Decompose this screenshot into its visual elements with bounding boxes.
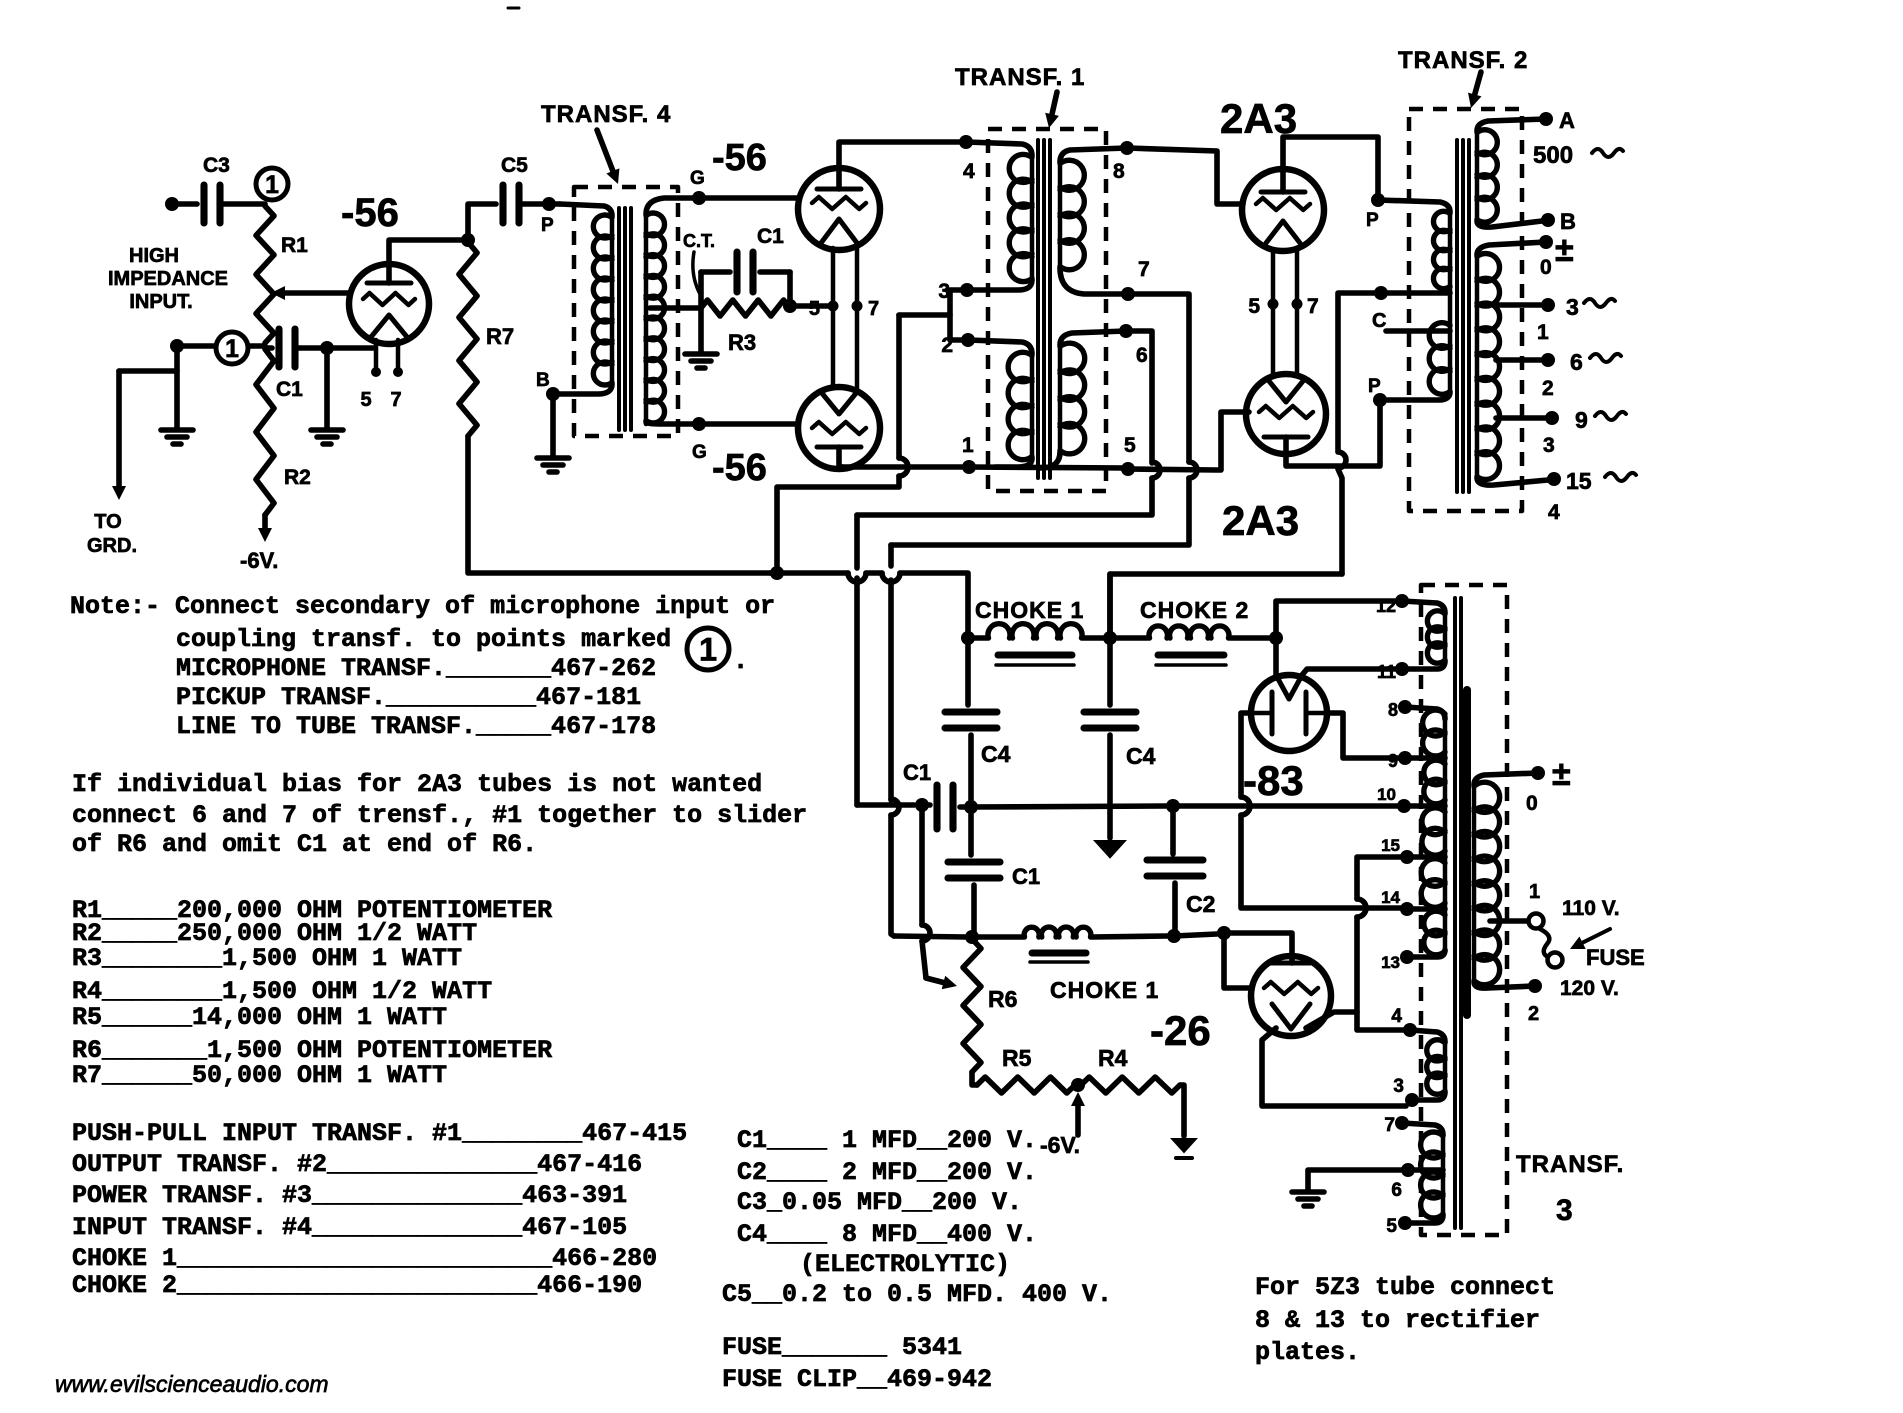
svg-text:MICROPHONE TRANSF._______467-2: MICROPHONE TRANSF._______467-262 [176,654,656,683]
junction dot C2 top [1166,799,1180,813]
bias note line 3 [72,830,537,859]
note 5Z3 line 1 [1255,1273,1555,1302]
wire plate #2 to T1-4 [839,142,962,168]
T3 core [1455,598,1467,1228]
watermark [55,1371,329,1397]
svg-text:LINE TO TUBE TRANSF._____467-1: LINE TO TUBE TRANSF._____467-178 [176,712,656,741]
parts R2 [72,919,477,948]
T1 core [1038,140,1050,478]
R6 line left [894,936,966,937]
wire -26 fil left to 3 [1262,1028,1406,1106]
arrow to transf1 [1045,92,1059,128]
T2 tap 3ohm [1496,294,1615,320]
svg-text:INPUT.: INPUT. [129,291,192,313]
T1 terminal 1 [962,434,976,474]
svg-text:TRANSF. 1: TRANSF. 1 [955,64,1085,91]
ground (cathode) [311,348,343,444]
wire -83 right anode to 9 [1327,713,1399,758]
capacitor C2 [1147,806,1215,933]
wire to TO GRD arrow [112,371,177,500]
T1 terminal 7 [1121,258,1150,301]
svg-text:FUSE CLIP__469-942: FUSE CLIP__469-942 [722,1365,992,1394]
ground (input) [161,430,193,444]
note 5Z3 line 3 [1255,1338,1360,1367]
capacitor C1 series [922,785,971,829]
wiper arrow to R1 [271,286,348,300]
label CHOKE 2 [1140,597,1249,623]
tube -56 #3 cathode [821,392,857,414]
label -6V (R2) [240,548,278,573]
tube -56 #3 grid [812,422,866,434]
junction dot R5-R4 [1071,1078,1085,1092]
wire -26 fil right to 4-15 [1306,1012,1357,1028]
parts R7 [72,1061,447,1090]
T2 primary lead P bottom [1380,392,1450,400]
node 1 (circled) in note [687,628,744,674]
T2 tap 6ohm [1496,349,1621,400]
T1 primary lower winding [1008,352,1032,460]
tube -83 envelope [1251,675,1327,751]
tube -56 #1 envelope [349,264,429,344]
transformer T2 dashed box [1409,109,1522,511]
wire R3 to pin5 [790,303,833,309]
svg-text:C4____ 8 MFD__400 V.: C4____ 8 MFD__400 V. [737,1220,1037,1249]
T1 CT wire to B+ [777,315,950,570]
choke 1 lower core [1030,953,1088,962]
terminal P transf4 [541,197,556,236]
tube 2A3 top grid [1256,198,1310,210]
svg-text:R4: R4 [1098,1045,1128,1071]
svg-text:C4: C4 [981,741,1011,767]
label CHOKE 1 lower [1050,977,1159,1003]
svg-text:C3: C3 [203,154,230,177]
svg-text:R4________1,500 OHM 1/2 WATT: R4________1,500 OHM 1/2 WATT [72,977,492,1006]
svg-text:3: 3 [1543,434,1555,457]
T4 primary lead top [560,204,612,216]
T4 secondary lead top [646,198,699,214]
svg-text:P: P [1368,376,1381,397]
T3 terminal 8 [1388,700,1412,720]
svg-text:OUTPUT TRANSF. #2_____________: OUTPUT TRANSF. #2______________467-416 [72,1150,642,1179]
T1 sec lower lead top [1060,331,1126,345]
wire to ground under input [174,349,180,428]
T3 terminal 0 (mains) [1526,755,1571,815]
T3 tap 14 [1381,888,1445,916]
parts fuse [722,1333,962,1362]
wire C3 to R1 top [220,201,265,207]
svg-text:1: 1 [265,172,279,199]
svg-text:plates.: plates. [1255,1338,1360,1367]
label C.T. [683,231,715,294]
svg-text:8 & 13 to rectifier: 8 & 13 to rectifier [1255,1306,1540,1335]
parts C4 [737,1220,1037,1249]
note text line 3 [176,654,656,683]
B+ line from R7 [770,573,968,633]
R6 line to -26 [1174,934,1217,936]
choke 1 core [996,655,1074,665]
tube -56 #1 label [341,191,399,235]
tube 2A3 top envelope [1242,169,1324,251]
note text line 1 [70,592,775,621]
transformer T1 dashed box [988,129,1106,491]
svg-text:9: 9 [1388,751,1398,771]
parts R1 [72,896,552,925]
svg-text:Note:- Connect secondary of mi: Note:- Connect secondary of microphone i… [70,592,775,621]
T1 terminal 8 [1113,141,1134,183]
wire C4a to CT line [968,735,974,805]
label TRANSF. 4 [541,101,671,128]
T1 primary upper lead top [966,142,1032,156]
T2 label 1 under 3ohm [1537,321,1549,344]
tube 2A3 bottom grid [1259,406,1313,418]
T2 secondary lower winding [1477,242,1548,485]
resistor R4 [1081,1045,1180,1093]
parts T2 [72,1150,642,1179]
T3 tap 10 [1377,785,1445,813]
svg-text:INPUT TRANSF. #4_____________: INPUT TRANSF. #4______________467-105 [72,1213,627,1242]
svg-text:C.T.: C.T. [683,231,715,251]
svg-text:7: 7 [1138,258,1150,281]
T3 terminal 4 [1391,1006,1417,1037]
svg-text:13: 13 [1381,953,1400,972]
arrow -6V to R5R4 [1071,1092,1085,1135]
T2 core [1457,140,1469,492]
ground (R4) [1170,1138,1198,1158]
wire B to ground [550,394,556,456]
CT line to C2 [971,806,1166,807]
parts T4 [72,1213,627,1242]
terminal G top [690,168,706,205]
T1 terminal 3 [938,280,974,303]
svg-text:120 V.: 120 V. [1560,977,1619,1000]
svg-text:IMPEDANCE: IMPEDANCE [108,268,228,290]
wire choke mid up to B+ right [1110,574,1342,638]
svg-text:CHOKE 2_______________________: CHOKE 2________________________466-190 [72,1271,642,1300]
junction dot C2 bottom [1167,929,1181,943]
svg-text:3: 3 [1556,1194,1573,1227]
svg-text:4: 4 [963,160,975,183]
svg-text:6: 6 [1570,349,1583,375]
T1 sec upper lead bottom [1060,268,1128,294]
T4 center tap [650,305,701,311]
resistor R2 [256,349,311,515]
T3 tap 15 [1381,836,1445,864]
svg-text:HIGH: HIGH [129,245,179,267]
wire R6 corridor down (x891) [891,545,899,936]
svg-text:1: 1 [225,336,239,363]
svg-text:15: 15 [1566,468,1592,494]
svg-text:7: 7 [868,298,879,320]
parts R6 [72,1036,552,1065]
tube -56 #2 plate [817,168,861,189]
ground (R3) [685,354,717,368]
svg-text:7: 7 [390,389,401,411]
svg-text:C2: C2 [1186,891,1215,917]
choke1 left junction [961,631,975,645]
T1 series link 3-2 [950,290,968,340]
T3 winding 8-13 [1405,707,1445,957]
note text line 2 [176,625,671,654]
tube -83 anode left [1253,692,1272,734]
junction dot -26 grid branch [1217,926,1231,940]
tube 2A3 bottom envelope [1246,374,1326,454]
tube 2A3 bottom cathode [1269,381,1303,402]
T4 primary lead bottom [553,384,612,394]
wire G to grid #3 [699,421,798,427]
T1 primary lower lead bottom [995,458,1032,467]
input terminal (top) [165,197,179,211]
tube -56 #2 cathode [821,219,857,243]
capacitor C1 lower [948,807,1040,889]
svg-text:2: 2 [1542,377,1554,400]
svg-text:connect 6 and 7 of trensf., #1: connect 6 and 7 of trensf., #1 together … [72,801,807,830]
wire -83 left anode to 14 [1241,713,1401,908]
T4 secondary winding [646,212,665,424]
wire C4b to gnd arrow [1107,735,1113,838]
resistor R5 [977,1045,1075,1093]
svg-text:TRANSF.: TRANSF. [1516,1151,1624,1178]
tube -56 #1 cathode [371,315,407,337]
wire 7 down to R6 line [891,294,1197,545]
capacitor C3 [203,154,230,223]
svg-text:www.evilscienceaudio.com: www.evilscienceaudio.com [55,1371,329,1397]
T3 tap 110V [1490,881,1620,929]
tube 2A3 top plate [1261,169,1305,192]
wire R6 to R5 [972,1072,977,1085]
junction dot B+ CT [770,566,784,580]
svg-text:R7: R7 [486,324,514,349]
tube -83 label [1243,757,1304,804]
svg-text:2A3: 2A3 [1222,497,1299,544]
T3 mains winding [1474,773,1538,988]
svg-text:6: 6 [1136,344,1148,367]
svg-text:7: 7 [1384,1115,1395,1136]
svg-text:0: 0 [1540,256,1552,279]
svg-text:C5: C5 [501,154,528,177]
T3 terminal 7 [1384,1115,1409,1136]
tube -26 label [1150,1007,1211,1054]
svg-text:1: 1 [962,434,974,457]
svg-text:1: 1 [1529,881,1540,903]
capacitor C1 (input) [265,329,303,401]
T2 terminal A [1539,108,1575,133]
wire C to B+ drop [1338,293,1381,574]
svg-text:-26: -26 [1150,1007,1211,1054]
svg-text:5: 5 [809,298,820,320]
svg-text:3: 3 [1393,1076,1404,1097]
transformer T4 dashed box [574,187,678,436]
svg-text:R3: R3 [728,330,756,355]
input terminal (lower) [170,339,184,353]
wire C1 to cathode junction [295,345,374,351]
resistor R6 [963,939,1017,1072]
wire lower input junction [177,343,265,349]
junction dot R6 top [965,930,979,944]
svg-text:FUSE: FUSE [1586,945,1645,970]
svg-text:R5______14,000 OHM 1 WATT: R5______14,000 OHM 1 WATT [72,1003,447,1032]
ground stem R3 [698,308,704,352]
T3 winding 7-5 [1402,1123,1443,1223]
T3 terminal 11 [1377,662,1409,682]
tube -56 #2 label [712,137,767,179]
T1 sec lower lead bottom [1040,452,1060,468]
wire 5-6 to 2A3 grid [1128,412,1249,470]
T2 primary upper lead bottom [1386,290,1450,296]
T1 sec lower winding [1060,343,1085,454]
svg-text:(ELECTROLYTIC): (ELECTROLYTIC) [800,1250,1010,1279]
svg-text:C1: C1 [903,760,931,785]
T1 sec upper winding [1060,160,1084,270]
tube -56 #3 envelope [798,387,880,469]
svg-text:5: 5 [360,389,371,411]
wire 2A3 plate to P top [1283,137,1378,195]
wire 2A3b plate to P bottom [1286,405,1380,466]
parts fuse clip [722,1365,992,1394]
arrow to transf2 [1468,72,1482,108]
svg-text:4: 4 [1391,1006,1402,1027]
wire R7 bottom to B+ line [468,436,770,573]
svg-text:3: 3 [1566,294,1579,320]
svg-text:C1: C1 [276,378,303,401]
label C1 (left cap) [903,760,931,785]
label TRANSF. 2 [1398,47,1528,74]
svg-text:12: 12 [1376,596,1396,616]
svg-text:15: 15 [1381,836,1400,855]
svg-text:For 5Z3 tube connect: For 5Z3 tube connect [1255,1273,1555,1302]
resistor R1 [256,206,308,343]
svg-text:±: ± [1555,231,1574,269]
wire -26 grid branch [1224,933,1251,988]
T2 primary lower winding [1429,293,1450,394]
choke junction mid [1103,631,1117,645]
svg-text:of R6 and omit C1 at end of R6: of R6 and omit C1 at end of R6. [72,830,537,859]
pin dots 5 7 drivers [809,298,879,320]
svg-text:C3_0.05 MFD__200 V.: C3_0.05 MFD__200 V. [737,1188,1022,1217]
arrow to transf4 [597,130,619,184]
ground (B) [537,458,569,472]
capacitor C4 right [1084,712,1156,769]
T1 terminal 4 [959,135,975,183]
2A3 heater lines [1273,249,1297,375]
svg-text:1: 1 [1537,321,1549,344]
tube 2A3 top cathode [1266,221,1300,243]
svg-text:0: 0 [1526,792,1538,815]
tube -56 #2 grid [812,197,866,209]
svg-text:±: ± [1552,755,1571,793]
svg-text:P: P [1366,210,1379,231]
svg-text:GRD.: GRD. [87,535,137,557]
terminal B transf4 [536,370,560,401]
svg-text:C2____ 2 MFD__200 V.: C2____ 2 MFD__200 V. [737,1158,1037,1187]
label 2A3 top [1220,95,1297,142]
tube 2A3 bottom plate [1264,437,1308,454]
svg-text:8: 8 [1113,160,1125,183]
wire bias corridor down (x857) [854,515,860,805]
parts C5 [722,1280,1112,1309]
svg-text:6: 6 [1391,1180,1402,1201]
svg-text:C4: C4 [1126,743,1156,769]
T3 tap 9 [1388,751,1445,771]
label TRANSF. 1 [955,64,1085,91]
parts C4b [800,1250,1010,1279]
svg-text:14: 14 [1381,888,1400,907]
tube -26 grid [1264,982,1318,994]
parts T3 [72,1181,627,1210]
bias note line 1 [72,770,762,799]
T2 primary lead P top [1378,200,1450,212]
T4 core [619,208,631,430]
wire choke2 junction up to 12 [1276,601,1396,638]
wire 6 down to bias line [857,331,1160,515]
tube -56 #2 envelope [798,168,880,250]
capacitor C5 [501,154,528,223]
T4 secondary lead bottom [646,422,699,424]
parts choke1 [72,1244,657,1273]
junction dot C4a [964,800,978,814]
resistor R3 [701,300,790,355]
label HIGH IMPEDANCE INPUT [108,245,228,313]
fuse curve [1540,929,1645,970]
wire 15 to x1357 [1357,857,1407,1030]
svg-text:PICKUP TRANSF.__________467-18: PICKUP TRANSF.__________467-181 [176,683,641,712]
T1 terminal 6 [1119,324,1148,367]
junction dot R3 right [783,299,797,313]
svg-text:500: 500 [1533,142,1573,169]
svg-text:C1: C1 [1012,864,1040,889]
svg-text:R5: R5 [1002,1045,1032,1071]
svg-text:PUSH-PULL INPUT TRANSF. #1____: PUSH-PULL INPUT TRANSF. #1________467-41… [72,1119,687,1148]
transformer T3 dashed box [1421,585,1507,1235]
svg-text:C5__0.2 to 0.5 MFD. 400 V.: C5__0.2 to 0.5 MFD. 400 V. [722,1280,1112,1309]
ground (T3-6) [1292,1192,1324,1206]
svg-text:C1: C1 [757,225,784,248]
svg-text:CHOKE 1: CHOKE 1 [1050,977,1159,1003]
label 500 ohm [1533,142,1623,169]
tube -26 filament [1272,1004,1310,1029]
svg-text:7: 7 [1307,295,1319,318]
svg-text:R1: R1 [281,234,308,257]
svg-text:FUSE_______ 5341: FUSE_______ 5341 [722,1333,962,1362]
wire 12 junction down to -83 [1273,638,1279,676]
svg-text:G: G [690,168,705,189]
svg-text:-56: -56 [712,447,767,489]
choke 1 coil [968,624,1110,638]
choke 2 coil [1110,626,1272,638]
wire C1 lower to R6 line [971,885,977,933]
label 2A3 bottom [1222,497,1299,544]
parts C2 [737,1158,1037,1187]
svg-text:2: 2 [1528,1003,1539,1025]
svg-text:8: 8 [1388,700,1398,720]
parts T1 [72,1119,687,1148]
T1 primary upper winding [1009,154,1032,282]
label TO GRD [87,511,137,557]
CT line to 10 [1173,803,1398,809]
svg-text:-83: -83 [1243,757,1304,804]
wire 11 to -83 filament [1302,669,1396,675]
capacitor C4 left [945,712,1011,767]
choke2 right junction [1269,631,1283,645]
T2 terminal C [1372,286,1388,332]
wire 6 to ground [1308,1170,1408,1190]
parts R3 [72,944,462,973]
arrow R2 to -6V [258,515,272,542]
T1 primary upper lead bottom [971,280,1032,290]
ground arrow (C4b) [1093,840,1127,859]
terminal G bottom [692,417,707,463]
wire C1 right down [787,272,793,303]
svg-text:11: 11 [1377,662,1396,682]
